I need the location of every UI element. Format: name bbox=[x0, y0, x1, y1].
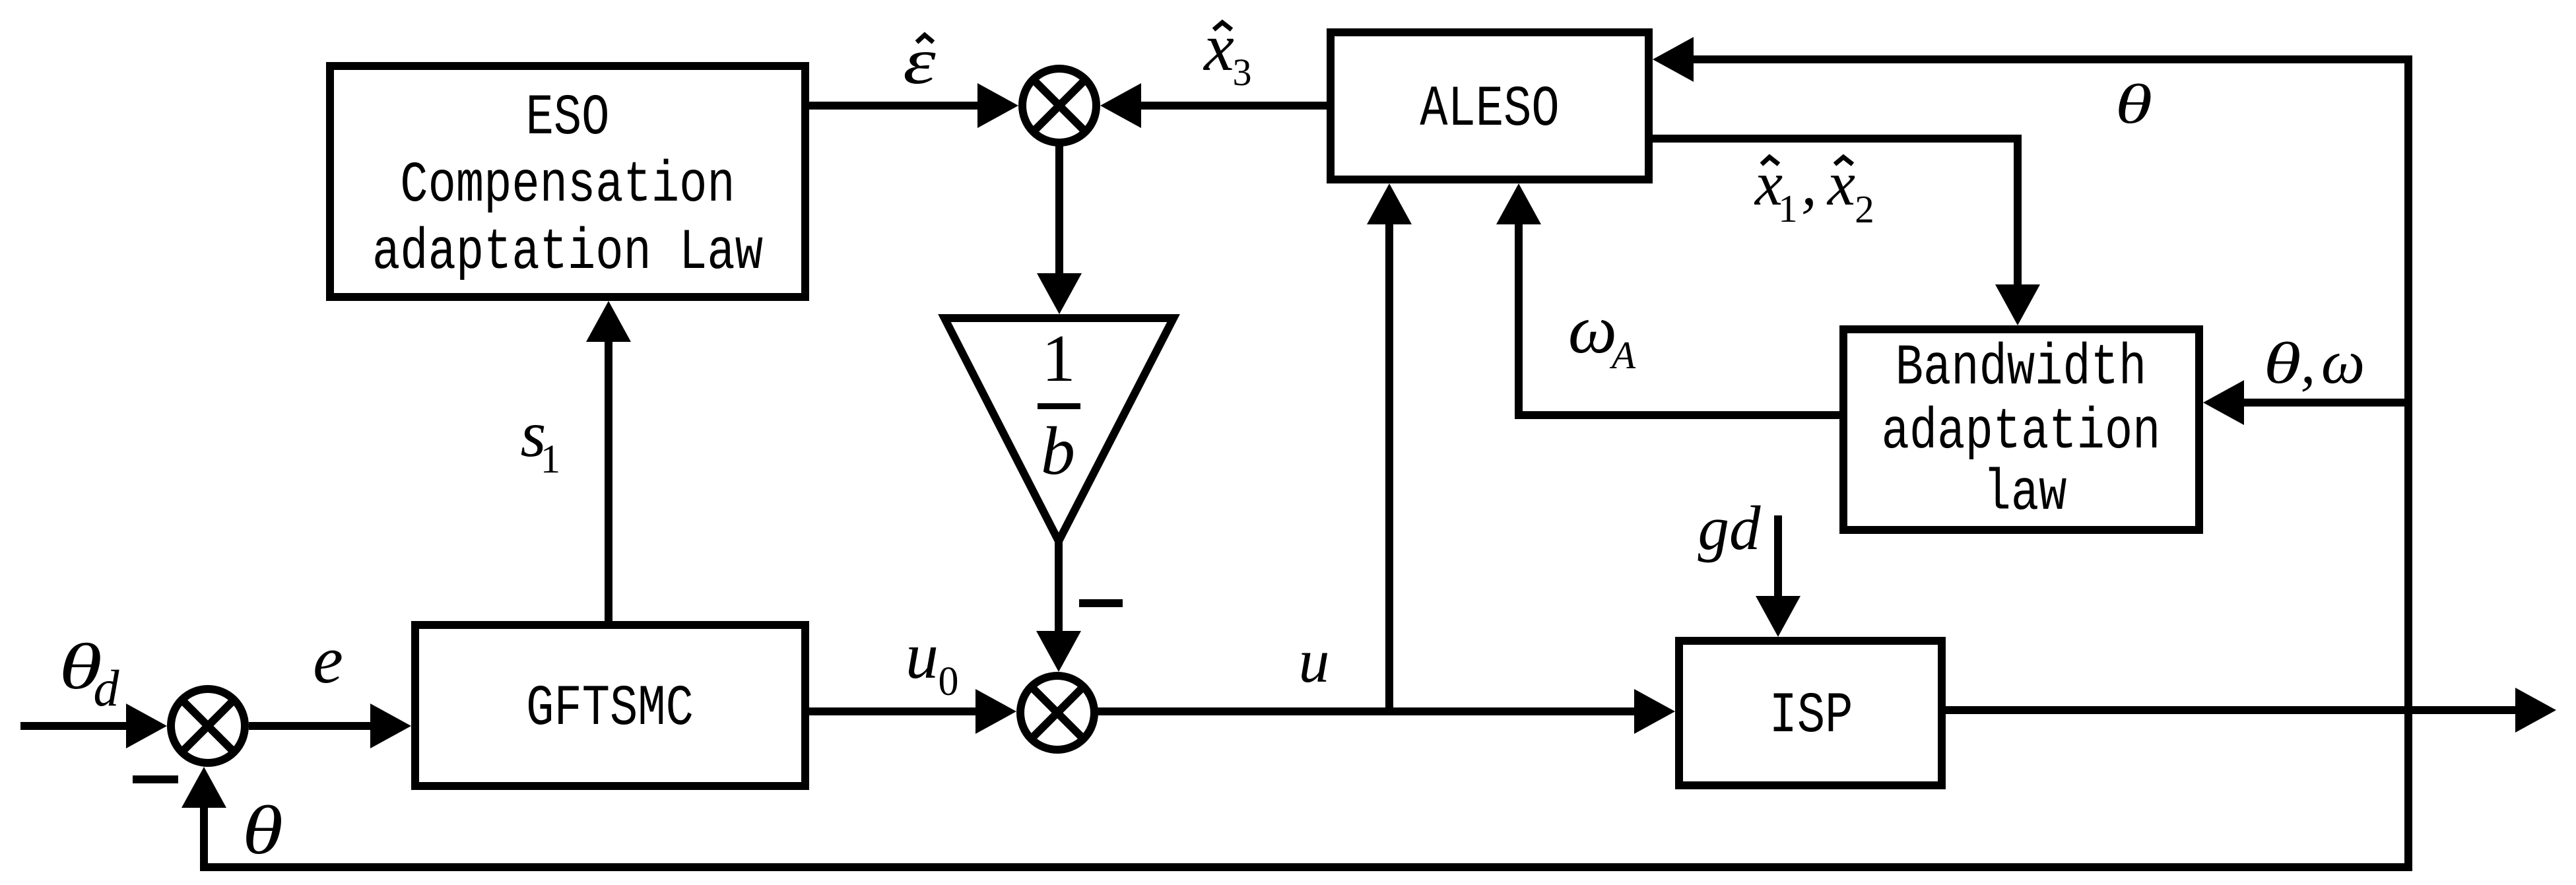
label omega_A bbox=[1568, 290, 1636, 377]
block U4 GFTSMC bbox=[415, 625, 805, 786]
wire ISP output to right edge with arrowhead bbox=[1942, 688, 2556, 733]
wire ESO output to S3 with arrowhead bbox=[805, 83, 1018, 128]
svg-text:ESO: ESO bbox=[526, 85, 610, 150]
svg-text:u: u bbox=[1299, 627, 1330, 696]
label x1-hat comma x2-hat bbox=[1754, 148, 1874, 231]
gain block 1/b triangle bbox=[944, 318, 1173, 541]
wire x1x2-hat from ALESO to Bandwidth with arrowhead bbox=[1649, 139, 2040, 325]
wire theta feedback top into ALESO with arrowhead bbox=[1653, 37, 2412, 82]
label theta_d bbox=[59, 630, 119, 717]
summing junction S2 bottom middle bbox=[1020, 676, 1094, 750]
summing junction S3 top bbox=[1022, 69, 1096, 143]
svg-text:ISP: ISP bbox=[1769, 683, 1853, 748]
wire GFTSMC output to S2 with arrowhead bbox=[805, 689, 1016, 734]
svg-text:law: law bbox=[1983, 461, 2067, 526]
wire gd input into ISP with arrowhead bbox=[1756, 515, 1800, 637]
svg-text:,: , bbox=[2301, 331, 2316, 396]
svg-text:x: x bbox=[1203, 10, 1234, 85]
svg-text:ε: ε bbox=[903, 24, 936, 98]
svg-text:0: 0 bbox=[939, 659, 959, 704]
svg-text:d: d bbox=[94, 659, 120, 717]
wire theta,omega into Bandwidth with arrowhead bbox=[2203, 380, 2408, 425]
label epsilon-hat bbox=[903, 24, 936, 98]
svg-text:θ: θ bbox=[242, 793, 283, 869]
svg-text:θ: θ bbox=[2264, 331, 2301, 396]
svg-text:b: b bbox=[1041, 413, 1075, 489]
wire triangle apex down to S2 with arrowhead bbox=[1036, 541, 1081, 672]
wire right vertical feedback bbox=[2404, 55, 2412, 871]
svg-text:adaptation Law: adaptation Law bbox=[372, 220, 763, 285]
wire bottom feedback from right vertical to S1 with arrowhead bbox=[182, 767, 2408, 867]
wire s1 from GFTSMC up into ESO with arrowhead bbox=[586, 301, 631, 621]
svg-text:adaptation: adaptation bbox=[1882, 399, 2161, 465]
label minus at S2 bbox=[1079, 599, 1123, 607]
svg-text:GFTSMC: GFTSMC bbox=[526, 676, 694, 741]
label gd bbox=[1698, 493, 1762, 563]
wire u branch up into ALESO with arrowhead bbox=[1367, 183, 1412, 711]
svg-text:ALESO: ALESO bbox=[1420, 77, 1559, 142]
wire S1 to GFTSMC with arrowhead bbox=[249, 704, 411, 748]
summing junction S1 bottom left bbox=[171, 689, 245, 763]
svg-text:ω: ω bbox=[2321, 328, 2365, 397]
svg-text:u: u bbox=[906, 619, 939, 692]
svg-text:1: 1 bbox=[1042, 321, 1076, 396]
svg-text:ω: ω bbox=[1568, 290, 1617, 368]
svg-text:2: 2 bbox=[1855, 187, 1874, 231]
wire S2 to ISP with arrowhead bbox=[1094, 689, 1675, 734]
svg-text:1: 1 bbox=[541, 438, 561, 482]
svg-text:gd: gd bbox=[1698, 493, 1762, 563]
wire omega_A from Bandwidth to ALESO with arrowhead bbox=[1496, 183, 1843, 415]
label u0 bbox=[906, 619, 959, 704]
svg-text:Compensation: Compensation bbox=[400, 152, 735, 218]
svg-text:θ: θ bbox=[2115, 73, 2152, 135]
svg-text:A: A bbox=[1609, 333, 1636, 377]
label minus at S1 bbox=[133, 775, 178, 783]
label s1 bbox=[521, 397, 561, 482]
block U2 ALESO bbox=[1331, 32, 1649, 180]
svg-text:Bandwidth: Bandwidth bbox=[1896, 335, 2147, 401]
wire ALESO output to S3 with arrowhead bbox=[1100, 83, 1331, 128]
wire S3 down to gain triangle with arrowhead bbox=[1037, 143, 1082, 314]
svg-text:3: 3 bbox=[1233, 51, 1252, 94]
svg-text:e: e bbox=[313, 622, 343, 698]
label theta,omega bbox=[2264, 328, 2365, 397]
block U3 Bandwidth adaptation law bbox=[1843, 329, 2199, 530]
wire theta_d input to S1 with arrowhead bbox=[20, 704, 167, 748]
svg-text:1: 1 bbox=[1778, 187, 1798, 230]
block U1 ESO Compensation adaptation Law bbox=[330, 66, 805, 297]
svg-text:,: , bbox=[1801, 148, 1817, 218]
label x3-hat bbox=[1203, 10, 1251, 94]
block U5 ISP bbox=[1679, 641, 1942, 785]
